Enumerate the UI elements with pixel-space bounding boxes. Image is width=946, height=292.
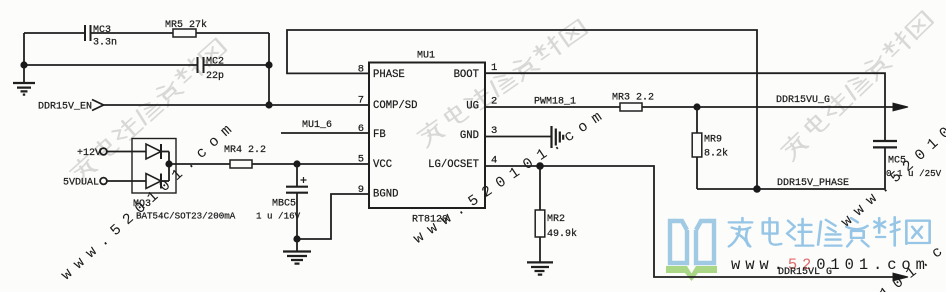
wire DDR15V_EN to pin7 [104,104,370,106]
svg-text:www.520101.com: www.520101.com [411,104,612,247]
pin number 5 [358,153,364,165]
resistor MR4 [230,160,252,168]
capacitor MC5 [873,141,897,189]
wire MR4 to pin5 VCC [252,163,369,165]
svg-text:DDR15VL G: DDR15VL G [778,267,832,278]
resistor MR3 [620,103,642,111]
label PWM18_1 net [534,97,576,108]
pin number 1 [491,62,497,74]
node junction VCC cap [293,160,300,167]
capacitor MC2 [198,57,204,73]
svg-text:2: 2 [491,96,497,108]
node junction MR2 [536,162,544,170]
svg-text:MQ3: MQ3 [133,199,151,210]
resistor MR5 [173,29,196,37]
svg-text:UG: UG [466,100,479,112]
wire MC2 to right vertical [204,64,269,66]
wire pin3 GND stub [485,136,551,138]
pin label FB [373,129,386,141]
node junction right mid [265,61,272,68]
label MQ3 [133,199,151,210]
logo chinese text [729,217,930,246]
wire pin9 BGND [298,194,369,239]
svg-text:MU1_6: MU1_6 [302,120,332,131]
terminal +12V [100,148,107,155]
resistor MR2 [535,166,545,262]
node junction MR9 top [693,103,700,110]
svg-text:5VDUAL: 5VDUAL [63,178,99,189]
svg-text:6: 6 [358,123,364,135]
svg-text:PWM18_1: PWM18_1 [534,97,576,108]
wire mid horizontal to MC2 [24,64,197,66]
svg-text:MR9: MR9 [704,135,722,146]
svg-text:22p: 22p [206,71,224,82]
node junction diode out [165,160,172,167]
wire pin8 PHASE loop top [287,30,757,189]
svg-text:49.9k: 49.9k [547,228,577,240]
svg-text:COMP/SD: COMP/SD [373,100,418,112]
pin number 7 [358,95,364,107]
svg-text:1: 1 [491,62,497,74]
svg-text:3.3n: 3.3n [93,38,117,49]
pin label BOOT [454,69,479,81]
label MR4 [224,145,266,156]
label MC5 [888,156,906,167]
pin label BGND [373,189,398,201]
watermark chinese run right [779,9,935,161]
svg-text:MBC5: MBC5 [272,199,296,210]
svg-text:MR5 27k: MR5 27k [165,19,207,31]
svg-text:+12V: +12V [77,148,101,159]
wire pin2 UG to MR3 [485,106,620,108]
pin number 3 [491,125,497,137]
wire top-left to MC3 [24,32,84,34]
label RT8120 [412,215,448,226]
node junction phase [753,185,761,193]
svg-text:4: 4 [491,155,497,167]
wire right vertical down to EN line [268,33,270,105]
svg-text:LG/OCSET: LG/OCSET [428,159,479,171]
wire +12V to diode [107,151,146,153]
node junction left [20,61,27,68]
svg-text:MR4 2.2: MR4 2.2 [224,145,266,156]
pin number 6 [358,123,364,135]
label DDR15VL_G net [778,267,832,278]
label DDR15V_EN [38,102,92,113]
svg-text:PHASE: PHASE [373,69,405,81]
label DDR15V_PHASE net [777,178,849,189]
wire pin1 BOOT to MC5 [485,73,885,140]
label MC3 [93,25,117,49]
wire left vertical [23,33,25,66]
ground pin3 sideways [552,126,564,148]
arrow DDR15VL_G [893,273,908,281]
svg-text:0.1 u /25V: 0.1 u /25V [886,168,942,179]
svg-text:MR3 2.2: MR3 2.2 [612,93,654,104]
transistor MQ3 dual diode box [132,139,176,194]
pin label LG/OCSET [428,159,479,171]
svg-text:BOOT: BOOT [454,69,479,81]
pin number 9 [358,184,364,196]
pin label GND [460,130,479,142]
capacitor MC3 [85,25,91,41]
wire MR5 to right vertical [196,32,269,34]
svg-text:MR2: MR2 [547,214,565,225]
label MR5 [165,19,207,31]
svg-text:DDR15V_EN: DDR15V_EN [38,102,92,113]
wire pin6 FB stub [281,132,369,134]
label MC5 value [886,168,942,179]
svg-text:BAT54C/SOT23/200mA: BAT54C/SOT23/200mA [136,211,236,222]
arrow DDR15VU_G [893,103,908,111]
diode D2 bottom [146,174,169,189]
svg-text:MC2: MC2 [206,57,224,68]
label MC2 [206,57,224,83]
svg-text:5: 5 [358,153,364,165]
pin label VCC [373,159,392,171]
svg-text:MU1: MU1 [417,51,435,62]
label MBC5 [272,199,296,210]
wire MC3 to MR5 [92,32,174,34]
svg-text:MC5: MC5 [888,156,906,167]
svg-text:DDR15VU_G: DDR15VU_G [776,95,830,106]
watermark chinese run left [68,37,228,184]
label MR3 [612,93,654,104]
op-amp U1 body RT8120 [369,63,485,209]
net input chevron DDR15V_EN [92,100,104,111]
label MU1_6 net [302,120,332,131]
label MR2 [547,214,577,240]
node junction BGND [293,235,300,242]
pin label UG [466,100,479,112]
wire MR3 to output arrow DDR15VU_G [642,106,896,108]
resistor MR9 [692,107,702,189]
wire diode node to MR4 [169,163,230,165]
watermark chinese run center [415,18,588,148]
pin label COMP/SD [373,100,418,112]
node junction EN line [265,101,272,108]
svg-text:FB: FB [373,129,386,141]
svg-text:DDR15V_PHASE: DDR15V_PHASE [777,178,849,189]
wire pin4 LG/OCSET [485,166,896,277]
svg-text:MC3: MC3 [93,25,111,36]
pin number 8 [358,63,364,75]
pin number 2 [491,96,497,108]
svg-text:GND: GND [460,130,479,142]
label DDR15VU_G net [776,95,830,106]
pin label PHASE [373,69,405,81]
terminal 5VDUAL [100,178,107,185]
svg-text:7: 7 [358,95,364,107]
label MR9 [704,135,728,160]
ground top-left [13,66,35,95]
label BAT54C [136,211,236,222]
capacitor MBC5 [286,164,308,239]
wire DDR15V_PHASE [697,188,885,190]
wire 5VDUAL to diode [107,180,146,182]
label MU1 [417,51,435,62]
svg-text:1 u /16V: 1 u /16V [256,211,301,222]
svg-text:9: 9 [358,184,364,196]
svg-text:BGND: BGND [373,189,398,201]
diode D1 top [146,144,169,159]
label MBC5 value [256,211,301,222]
svg-text:VCC: VCC [373,159,392,171]
logo book icon [666,221,717,281]
label 5VDUAL [63,178,99,189]
ground MBC5 [283,239,311,264]
ground MR2 [527,262,553,274]
wire diode cathode join [168,152,170,182]
label +12V [77,148,101,159]
svg-text:8.2k: 8.2k [704,148,728,160]
svg-text:3: 3 [491,125,497,137]
svg-text:8: 8 [358,63,364,75]
svg-text:RT8120: RT8120 [412,215,448,226]
pin number 4 [491,155,497,167]
